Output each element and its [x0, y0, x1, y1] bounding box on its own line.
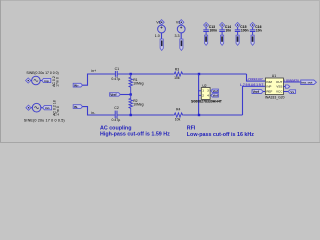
- svg-text:inn: inn: [45, 106, 50, 110]
- power flag above C14: [220, 23, 225, 28]
- svg-text:L8080870: L8080870: [284, 79, 299, 83]
- svg-text:10n: 10n: [225, 29, 231, 33]
- svg-text:U1: U1: [272, 74, 277, 78]
- ground net flag under C16: [251, 35, 254, 45]
- svg-text:10Meg: 10Meg: [133, 82, 143, 86]
- wire Vref flag to divider node: [120, 94, 130, 96]
- svg-text:INM: INM: [266, 80, 272, 84]
- svg-text:VCC: VCC: [276, 89, 283, 93]
- port flag Vref at U2 pin 3: [211, 89, 219, 92]
- wire source A to port: [40, 80, 42, 82]
- wire V3 to ground flag: [161, 33, 163, 39]
- capacitor C14 branch: [219, 23, 231, 46]
- resistor R3: [173, 72, 183, 76]
- svg-text:U2: U2: [202, 84, 206, 88]
- wire C1 to R3: [117, 73, 173, 75]
- svg-text:INA333_G20: INA333_G20: [265, 96, 285, 100]
- svg-text:OUT: OUT: [276, 80, 283, 84]
- node junction bottom of R2: [130, 114, 132, 116]
- power flag (diamond) above V3: [159, 20, 164, 25]
- ground flag at VSS pin: [283, 86, 285, 88]
- svg-text:REF: REF: [266, 89, 272, 93]
- svg-text:S0608278339HH4T: S0608278339HH4T: [191, 100, 223, 104]
- op-amp U1 (INA333): [265, 78, 283, 95]
- svg-text:3: 3: [207, 89, 209, 93]
- wire IN- to bottom rail: [83, 107, 116, 115]
- svg-text:IN+: IN+: [74, 83, 79, 87]
- svg-text:V3: V3: [156, 20, 160, 24]
- wire source B to port: [41, 107, 43, 109]
- svg-text:100n: 100n: [209, 29, 217, 33]
- svg-text:Low-pass cut-off is 16 kHz: Low-pass cut-off is 16 kHz: [187, 132, 254, 138]
- ground net flag under V1: [180, 39, 183, 51]
- svg-text:17m 0: 17m 0: [56, 106, 60, 116]
- port flag Vref at U2 pin 4: [211, 94, 219, 97]
- svg-text:L79946197: L79946197: [240, 83, 264, 87]
- port flag inn (source B): [43, 106, 52, 110]
- svg-text:R4: R4: [176, 107, 180, 111]
- port flag ina_out: [301, 80, 317, 85]
- wire Vref flag to REF pin: [263, 91, 265, 93]
- svg-text:0.47µ: 0.47µ: [111, 77, 120, 81]
- wire top rail to INM pin: [247, 74, 266, 81]
- wire flag to source A: [30, 80, 33, 82]
- wire OUT pin to output port: [283, 81, 300, 83]
- svg-text:SINE(0 20u 17 0 0 0.5): SINE(0 20u 17 0 0 0.5): [24, 119, 66, 123]
- power flag (diamond) left of source A: [26, 78, 31, 83]
- svg-text:Vref: Vref: [213, 94, 218, 98]
- node junction top of R1: [130, 73, 132, 75]
- svg-text:Vref: Vref: [253, 90, 260, 94]
- sine source A (top): [26, 71, 60, 87]
- sine voltage source B: [32, 103, 41, 112]
- svg-text:L79994197: L79994197: [246, 77, 263, 81]
- svg-text:4: 4: [207, 93, 209, 97]
- port flag Vs at VCC pin: [288, 90, 295, 94]
- power flag (diamond) left of source B: [26, 105, 31, 110]
- wire flag to source B: [31, 107, 32, 109]
- voltage source V1: [177, 25, 185, 33]
- svg-text:1: 1: [202, 89, 204, 93]
- svg-text:1.0: 1.0: [155, 34, 160, 38]
- canvas background: [0, 0, 320, 143]
- power flag above C15: [235, 23, 240, 28]
- node junction bottom bus: [198, 114, 200, 116]
- node junction top bus: [198, 73, 200, 75]
- wire bottom rail to INP pin: [243, 86, 266, 115]
- svg-text:INP: INP: [266, 85, 271, 89]
- svg-text:3.3: 3.3: [175, 34, 180, 38]
- svg-text:Vs: Vs: [290, 90, 294, 94]
- capacitor C15 branch: [235, 23, 249, 46]
- port flag IN+: [73, 83, 82, 87]
- port flag IN-: [73, 105, 82, 109]
- capacitor C15: [237, 28, 239, 30]
- sine source B (bottom): [24, 100, 66, 122]
- ground net flag under C14: [221, 35, 224, 45]
- svg-text:Vref: Vref: [110, 93, 117, 97]
- ground net flag under V3: [160, 39, 163, 51]
- wire R3 to INM corner: [184, 73, 247, 75]
- svg-text:RFI: RFI: [187, 126, 196, 132]
- svg-text:C2: C2: [114, 106, 119, 110]
- svg-text:10Meg: 10Meg: [133, 103, 143, 107]
- svg-text:ina_out: ina_out: [301, 81, 312, 85]
- svg-text:IN-: IN-: [74, 105, 78, 109]
- svg-text:100n: 100n: [241, 29, 249, 33]
- resistor R2: [129, 95, 132, 116]
- filter block U2: [201, 88, 210, 100]
- wire R4 to INP corner: [184, 114, 243, 116]
- capacitor C16 branch: [250, 23, 262, 46]
- node junction divider mid: [130, 93, 132, 95]
- wire V1 to ground flag: [180, 33, 182, 39]
- svg-text:High-pass cut-off is 1.59 Hz: High-pass cut-off is 1.59 Hz: [100, 132, 170, 138]
- port flag inp (source A): [42, 78, 51, 82]
- svg-text:VSS: VSS: [276, 85, 282, 89]
- svg-text:inp: inp: [44, 79, 49, 83]
- svg-text:10k: 10k: [174, 76, 180, 80]
- wire VCC pin to Vs flag: [283, 91, 288, 93]
- power flag above C13: [204, 23, 209, 28]
- capacitor C14: [221, 28, 223, 30]
- power flag (diamond) above V1: [179, 20, 184, 25]
- svg-text:10n: 10n: [256, 29, 262, 33]
- wire IN+ to top rail: [83, 74, 116, 85]
- port flag Vref (mid divider): [110, 93, 121, 97]
- capacitor C13 branch: [203, 23, 217, 46]
- svg-text:17m 0: 17m 0: [55, 77, 59, 87]
- svg-text:SINE(0 20u 17 0 0 0): SINE(0 20u 17 0 0 0): [26, 71, 58, 75]
- voltage source V3: [158, 25, 166, 33]
- capacitor C16: [252, 28, 254, 30]
- resistor R4: [173, 113, 183, 117]
- vertical bus wire at U2: [198, 74, 200, 115]
- ground net flag under C15: [236, 35, 239, 45]
- svg-text:V1: V1: [176, 20, 180, 24]
- svg-text:in+: in+: [91, 69, 96, 73]
- resistor R1: [129, 74, 132, 95]
- svg-text:Vref: Vref: [213, 89, 218, 93]
- power flag above C16: [250, 23, 255, 28]
- sine voltage source A: [32, 76, 41, 85]
- svg-text:10k: 10k: [175, 117, 181, 121]
- svg-text:0.47µ: 0.47µ: [112, 118, 121, 122]
- capacitor C13: [205, 28, 207, 30]
- wire bus to U2 pin 1: [198, 90, 201, 92]
- wire bus to U2 pin 2: [198, 94, 201, 96]
- port flag Vref at REF pin: [252, 90, 263, 94]
- ground net flag under C13: [205, 35, 208, 45]
- svg-text:R3: R3: [175, 67, 179, 71]
- wire C2 to R4: [117, 114, 173, 116]
- svg-text:2: 2: [202, 93, 204, 97]
- svg-text:C1: C1: [115, 67, 120, 71]
